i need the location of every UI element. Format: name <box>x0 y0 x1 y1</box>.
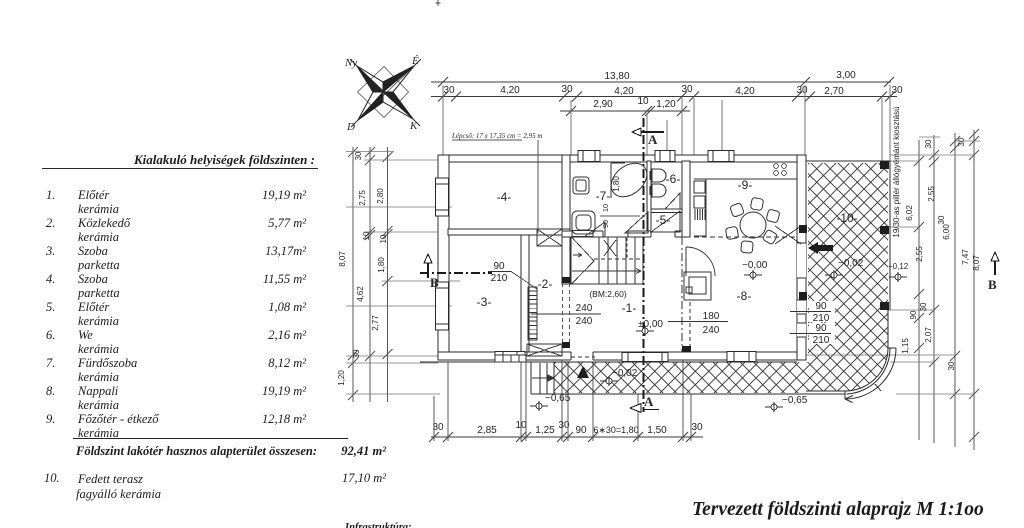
entry black triangle <box>577 366 589 378</box>
extension lines top <box>443 85 890 162</box>
corner steps arcs <box>845 348 896 403</box>
svg-text:7,47: 7,47 <box>961 249 970 265</box>
svg-text:2,55: 2,55 <box>915 246 924 262</box>
wall wc/vestibule <box>651 209 682 213</box>
svg-text:30: 30 <box>947 361 956 370</box>
fireplace <box>684 272 711 300</box>
wall bath/wc <box>647 161 651 231</box>
svg-text:90: 90 <box>493 261 505 272</box>
top edge mark <box>436 0 441 6</box>
svg-text:-2-: -2- <box>538 277 553 291</box>
svg-text:A: A <box>644 394 654 409</box>
svg-text:1,20: 1,20 <box>656 99 676 110</box>
section line A <box>643 118 645 412</box>
svg-text:A: A <box>648 132 658 147</box>
svg-text:-5-: -5- <box>656 213 671 227</box>
svg-text:Lépcső: 17 x 17,35 cm = 2,95 m: Lépcső: 17 x 17,35 cm = 2,95 m <box>451 132 542 140</box>
wall room3/room2 <box>521 235 529 352</box>
svg-text:30: 30 <box>443 85 455 96</box>
windows bottom wall <box>495 352 525 362</box>
svg-text:Ny: Ny <box>344 57 357 69</box>
terrace door leaves <box>775 226 801 244</box>
svg-text:240: 240 <box>576 303 593 314</box>
svg-text:1,80: 1,80 <box>612 176 621 192</box>
svg-text:K: K <box>409 120 418 132</box>
svg-text:30: 30 <box>796 85 808 96</box>
svg-text:1,80: 1,80 <box>377 257 386 273</box>
svg-text:-8-: -8- <box>737 289 752 303</box>
washing machine <box>572 156 653 234</box>
svg-text:2,80: 2,80 <box>376 188 385 204</box>
svg-text:(BM:2,60): (BM:2,60) <box>589 289 626 299</box>
svg-text:8,07: 8,07 <box>338 251 347 267</box>
svg-text:30: 30 <box>891 85 903 96</box>
svg-text:30: 30 <box>691 422 703 433</box>
section marker A bottom <box>630 404 659 413</box>
svg-text:-3-: -3- <box>477 295 492 309</box>
bathroom sink <box>572 211 595 234</box>
svg-text:30: 30 <box>937 215 946 224</box>
section marker B right <box>991 252 999 275</box>
svg-text:2,77: 2,77 <box>371 315 380 331</box>
svg-text:30: 30 <box>957 137 966 146</box>
bathtub <box>605 156 654 203</box>
svg-text:210: 210 <box>813 335 830 346</box>
door triangles <box>584 193 680 237</box>
svg-text:É: É <box>411 55 419 67</box>
windows top wall <box>436 151 757 362</box>
elevation markers <box>530 270 907 412</box>
wc toilet <box>650 169 666 197</box>
top dimension chain 2,90/10/1,20 <box>560 106 690 116</box>
svg-text:90: 90 <box>815 323 827 334</box>
fraction 90/210 stairs <box>491 261 830 346</box>
dining table <box>740 212 766 238</box>
kitchen counter <box>694 179 797 236</box>
wall bath bottom <box>562 231 690 237</box>
svg-text:4,62: 4,62 <box>356 286 365 302</box>
svg-text:±0,00: ±0,00 <box>638 319 663 330</box>
svg-text:−0,65: −0,65 <box>782 395 808 406</box>
svg-text:1,25: 1,25 <box>535 425 555 436</box>
svg-text:−0,02: −0,02 <box>838 258 864 269</box>
terrace pillars <box>799 161 889 310</box>
entry steps <box>495 355 526 362</box>
svg-text:−0,65: −0,65 <box>545 393 571 404</box>
outer walls <box>438 155 806 360</box>
svg-text:90: 90 <box>575 425 587 436</box>
terrace entry arrow <box>808 242 833 254</box>
right dimension chains <box>806 129 980 450</box>
stove burners <box>774 164 787 176</box>
top dimension chain 30/4,20 <box>431 92 897 102</box>
svg-text:2,55: 2,55 <box>927 186 936 202</box>
windows left wall <box>436 178 449 216</box>
svg-text:-4-: -4- <box>497 190 512 204</box>
kitchen radiator <box>695 209 705 220</box>
header underline <box>42 168 318 169</box>
svg-text:6,00: 6,00 <box>942 224 951 240</box>
svg-text:3,00: 3,00 <box>836 70 856 81</box>
svg-text:1,15: 1,15 <box>901 338 910 354</box>
svg-text:10: 10 <box>637 96 649 107</box>
wc bidet <box>650 184 666 197</box>
svg-text:10: 10 <box>601 204 610 212</box>
door openings <box>571 230 806 361</box>
svg-text:4,20: 4,20 <box>500 85 520 96</box>
wall vestibule/kitchen <box>682 161 690 237</box>
section marker A top <box>632 128 664 136</box>
wall room4/bath <box>562 155 570 284</box>
svg-text:2,90: 2,90 <box>593 99 613 110</box>
svg-text:-10-: -10- <box>836 211 857 225</box>
svg-text:-1-: -1- <box>622 301 637 315</box>
svg-text:−0,02: −0,02 <box>612 368 638 379</box>
svg-text:-7-: -7- <box>596 189 611 203</box>
svg-text:−0,00: −0,00 <box>742 260 768 271</box>
cupboard x-box top <box>537 229 562 246</box>
radiator corridor <box>527 229 562 356</box>
table rows <box>46 189 55 202</box>
wall pillar squares <box>562 277 691 352</box>
svg-text:240: 240 <box>576 316 593 327</box>
svg-text:30: 30 <box>354 151 363 160</box>
svg-text:90: 90 <box>815 301 827 312</box>
svg-text:2,70: 2,70 <box>824 86 844 97</box>
svg-text:19/30-as pillér állógyémánt ki: 19/30-as pillér állógyémánt kiosztású <box>892 106 901 237</box>
svg-text:B: B <box>988 277 997 292</box>
svg-text:210: 210 <box>491 273 508 284</box>
svg-text:D: D <box>346 121 355 133</box>
svg-text:90: 90 <box>601 220 610 228</box>
svg-text:−0,12: −0,12 <box>888 262 909 271</box>
svg-text:90: 90 <box>909 310 918 319</box>
svg-text:-9-: -9- <box>738 178 753 192</box>
svg-text:180: 180 <box>703 311 720 322</box>
svg-text:10: 10 <box>362 231 371 240</box>
svg-text:10: 10 <box>379 234 388 243</box>
label plates <box>809 301 835 344</box>
clipped small text bottom <box>345 521 412 528</box>
terrace hatching <box>808 163 888 391</box>
svg-text:2,07: 2,07 <box>924 327 933 343</box>
kitchen sink unit <box>694 181 705 193</box>
svg-text:30: 30 <box>561 84 573 95</box>
compass rose <box>350 59 421 127</box>
door arc living <box>686 247 715 276</box>
stairs <box>571 231 644 285</box>
svg-text:240: 240 <box>703 325 720 336</box>
svg-text:6∗30=1,80: 6∗30=1,80 <box>593 425 638 435</box>
section line B left <box>420 272 492 274</box>
bath door threshold <box>572 231 593 237</box>
svg-text:1,50: 1,50 <box>647 425 667 436</box>
title bottom right <box>692 503 984 516</box>
svg-text:4,20: 4,20 <box>735 86 755 97</box>
svg-text:13,80: 13,80 <box>604 71 629 82</box>
entry arrow <box>532 375 554 382</box>
room list table header <box>134 153 315 166</box>
svg-text:4,20: 4,20 <box>614 86 634 97</box>
svg-text:B: B <box>430 275 439 290</box>
svg-text:30: 30 <box>924 139 933 148</box>
boundary hall/living dashdot <box>681 237 683 352</box>
svg-text:-6-: -6- <box>666 172 681 186</box>
svg-text:8,07: 8,07 <box>972 255 981 271</box>
wall room4/room3 <box>448 229 570 235</box>
left dimension chains <box>346 147 460 402</box>
boundary kitchen/living dashed <box>694 236 797 238</box>
svg-text:6,02: 6,02 <box>905 205 914 221</box>
chairs <box>725 197 780 253</box>
svg-text:30: 30 <box>681 84 693 95</box>
rotated small dims <box>601 176 621 229</box>
cupboard x-box low <box>527 344 562 356</box>
top dimension chain 13,80 / 3,00 <box>431 77 894 87</box>
bottom dimension chain <box>429 432 703 442</box>
corridor open boundary <box>563 283 570 342</box>
terrace border <box>420 161 890 394</box>
svg-text:30: 30 <box>352 349 361 358</box>
svg-text:30: 30 <box>919 302 928 311</box>
svg-text:1,20: 1,20 <box>337 370 346 386</box>
room labels <box>477 172 858 315</box>
svg-text:2,75: 2,75 <box>358 190 367 206</box>
walkway hatching <box>554 362 808 393</box>
svg-text:2,85: 2,85 <box>477 425 497 436</box>
